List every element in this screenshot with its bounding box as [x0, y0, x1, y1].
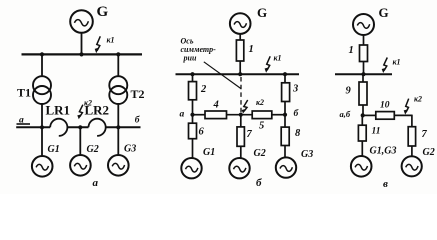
fault arrow K2 (figure v): [404, 99, 409, 115]
svg-text:G: G: [257, 5, 267, 20]
wire node ab to impedance 10: [363, 114, 376, 116]
underline of node label a: [17, 123, 31, 125]
wire bus to impedance 3: [284, 74, 286, 83]
generator G1 (figure b): [181, 158, 201, 178]
impedance 7 (figure b): [237, 127, 244, 146]
section busbar segment left (figure a): [16, 126, 50, 128]
svg-text:G2: G2: [423, 147, 435, 158]
svg-text:к2: к2: [84, 99, 92, 108]
wire corner down to impedance 7: [411, 115, 413, 127]
generator G2 (figure a): [70, 155, 91, 176]
wire impedance 8 to G3: [284, 146, 286, 158]
svg-text:а: а: [19, 115, 24, 125]
fault arrow K1 (figure a): [95, 36, 101, 53]
node dot T2 on top bus: [116, 52, 120, 56]
generator G2 (figure b): [229, 158, 249, 178]
generator G2 (figure v): [402, 156, 422, 176]
svg-text:8: 8: [295, 128, 301, 139]
generator G1 (figure a): [32, 156, 53, 177]
svg-text:7: 7: [422, 129, 428, 140]
wire G to impedance 1: [363, 35, 365, 45]
impedance 2: [189, 82, 197, 100]
svg-text:рии: рии: [183, 54, 197, 63]
wire impedance 9 to node ab: [362, 105, 364, 115]
impedance 7 (figure v): [408, 127, 415, 146]
wire impedance 10 to corner: [394, 114, 412, 116]
svg-text:к1: к1: [393, 58, 401, 67]
generator G (figure v): [353, 14, 374, 35]
svg-text:G3: G3: [124, 143, 136, 154]
generator G (figure a): [70, 10, 93, 33]
impedance 6: [189, 123, 197, 139]
fault arrow K1 (figure b): [265, 56, 271, 73]
svg-text:а: а: [180, 110, 185, 120]
node dot bus centre: [238, 72, 242, 76]
fault arrow K2 (figure b): [242, 100, 248, 114]
wire impedance 6 to G1: [192, 139, 194, 158]
wire node a to impedance 6: [192, 115, 194, 124]
svg-text:6: 6: [199, 127, 205, 138]
svg-text:LR1: LR1: [46, 103, 71, 118]
wire impedance 1 to bus: [363, 62, 365, 75]
svg-text:к1: к1: [107, 36, 115, 45]
wire node b to impedance 8: [284, 115, 286, 127]
leader line to axis of symmetry: [204, 62, 241, 89]
node dot T1 on top bus: [40, 52, 44, 56]
impedance 5 (horizontal): [252, 111, 272, 119]
wire centre node to impedance 7: [240, 115, 242, 127]
wire G to top bus (figure a): [81, 32, 83, 54]
node dot G on top bus: [79, 52, 83, 56]
transformer T2: [109, 76, 127, 104]
wire T2 to section bus b: [117, 104, 119, 127]
svg-text:G1: G1: [48, 144, 60, 155]
node dot a-G1 on section bus: [40, 125, 44, 129]
svg-text:а,б: а,б: [340, 109, 351, 119]
wire impedance 4 to centre node: [227, 114, 253, 116]
node dot bus left branch: [190, 72, 194, 76]
node dot middle on section bus: [78, 125, 82, 129]
section busbar segment right (figure a): [106, 126, 141, 128]
wire impedance 2 to node a: [192, 100, 194, 115]
svg-text:а: а: [93, 177, 99, 189]
fault arrow K2 (figure a): [77, 105, 83, 120]
impedance 3: [282, 83, 290, 102]
impedance 1 (figure b): [236, 40, 243, 61]
node dot b-G3 on section bus: [116, 125, 120, 129]
wire impedance 11 to G1-G3: [361, 141, 363, 156]
node dot ab: [361, 113, 365, 117]
section busbar segment middle (figure a): [67, 126, 88, 128]
svg-text:5: 5: [259, 121, 264, 132]
svg-text:T1: T1: [17, 86, 31, 100]
wire bus to G3: [117, 127, 119, 155]
svg-text:к2: к2: [256, 98, 264, 107]
dashed axis of symmetry: [240, 77, 242, 113]
wire node ab to impedance 11: [361, 115, 363, 125]
wire bus to G2: [79, 127, 81, 155]
busbar (figure v): [335, 73, 392, 75]
impedance 10 (horizontal): [376, 112, 395, 120]
wire bus to impedance 9: [362, 74, 364, 82]
node dot a: [190, 113, 194, 117]
generator G1,G3 (figure v): [351, 156, 372, 177]
generator G3 (figure a): [108, 155, 129, 176]
svg-text:к1: к1: [274, 54, 282, 63]
wire node a to impedance 4: [193, 114, 206, 116]
wire impedance 7 to G2: [240, 146, 242, 158]
wire T1 to section bus a: [41, 104, 43, 127]
transformer T1: [33, 76, 51, 104]
svg-text:T2: T2: [131, 87, 145, 101]
svg-text:G: G: [379, 5, 389, 20]
svg-text:G1: G1: [203, 147, 215, 158]
wire G to impedance 1: [239, 34, 241, 40]
svg-text:б: б: [256, 177, 262, 189]
svg-text:7: 7: [247, 129, 253, 140]
wire impedance 7 to G2: [411, 146, 413, 156]
svg-text:G1,G3: G1,G3: [370, 146, 397, 157]
wire bus to G1: [41, 127, 43, 156]
svg-text:3: 3: [292, 84, 298, 95]
reactor LR1: [50, 119, 67, 136]
svg-text:4: 4: [213, 100, 219, 111]
node dot b: [283, 113, 287, 117]
impedance 11: [358, 125, 366, 141]
svg-text:1: 1: [249, 44, 254, 55]
wire impedance 3 to node b: [284, 102, 286, 115]
generator G3 (figure b): [276, 157, 296, 177]
wire impedance 1 to bus: [239, 61, 241, 74]
svg-text:G2: G2: [254, 148, 266, 159]
svg-text:9: 9: [346, 86, 352, 97]
wire bus to T1: [41, 54, 43, 76]
svg-text:в: в: [383, 178, 388, 190]
node dot bus (figure v): [361, 72, 365, 76]
busbar (figure b): [176, 73, 300, 75]
node dot bus right branch: [283, 72, 287, 76]
impedance 9: [359, 82, 367, 105]
svg-text:G: G: [97, 4, 109, 20]
top busbar (figure a): [22, 53, 143, 55]
wire impedance 5 to node b: [272, 114, 285, 116]
svg-text:11: 11: [372, 127, 381, 137]
wire bus to impedance 2: [192, 74, 194, 81]
svg-text:G2: G2: [87, 144, 99, 155]
svg-text:к2: к2: [414, 95, 422, 104]
fault arrow K1 (figure v): [382, 58, 388, 74]
node dot centre (K2 point): [239, 113, 243, 117]
impedance 1 (figure v): [360, 45, 368, 62]
svg-text:1: 1: [349, 45, 354, 56]
impedance 8: [281, 127, 289, 145]
reactor LR2: [89, 119, 106, 136]
wire bus to T2: [117, 54, 119, 76]
svg-text:G3: G3: [301, 149, 313, 160]
impedance 4 (horizontal): [205, 111, 227, 119]
generator G (figure b): [230, 13, 251, 34]
svg-text:2: 2: [200, 84, 207, 95]
svg-text:10: 10: [380, 101, 390, 111]
